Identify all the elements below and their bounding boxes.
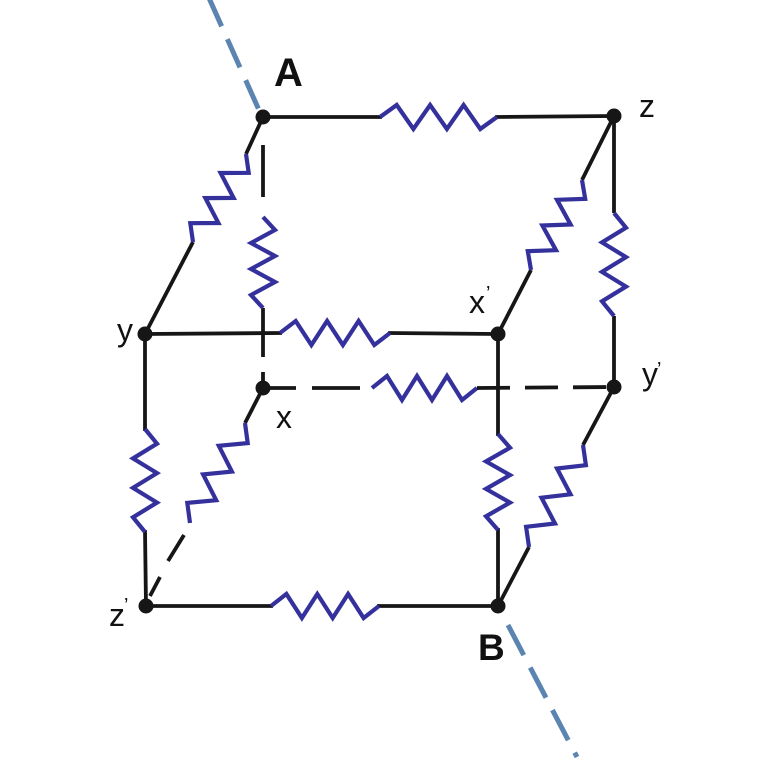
svg-text:’: ’ [486, 283, 490, 305]
svg-text:y: y [642, 356, 658, 392]
svg-text:z: z [109, 597, 125, 633]
svg-text:z: z [639, 88, 655, 124]
svg-text:x: x [276, 399, 292, 435]
svg-text:y: y [117, 312, 133, 348]
svg-text:x: x [469, 284, 485, 320]
svg-text:A: A [274, 51, 303, 95]
svg-text:’: ’ [657, 359, 661, 381]
svg-text:B: B [478, 627, 505, 668]
svg-text:’: ’ [124, 595, 128, 617]
